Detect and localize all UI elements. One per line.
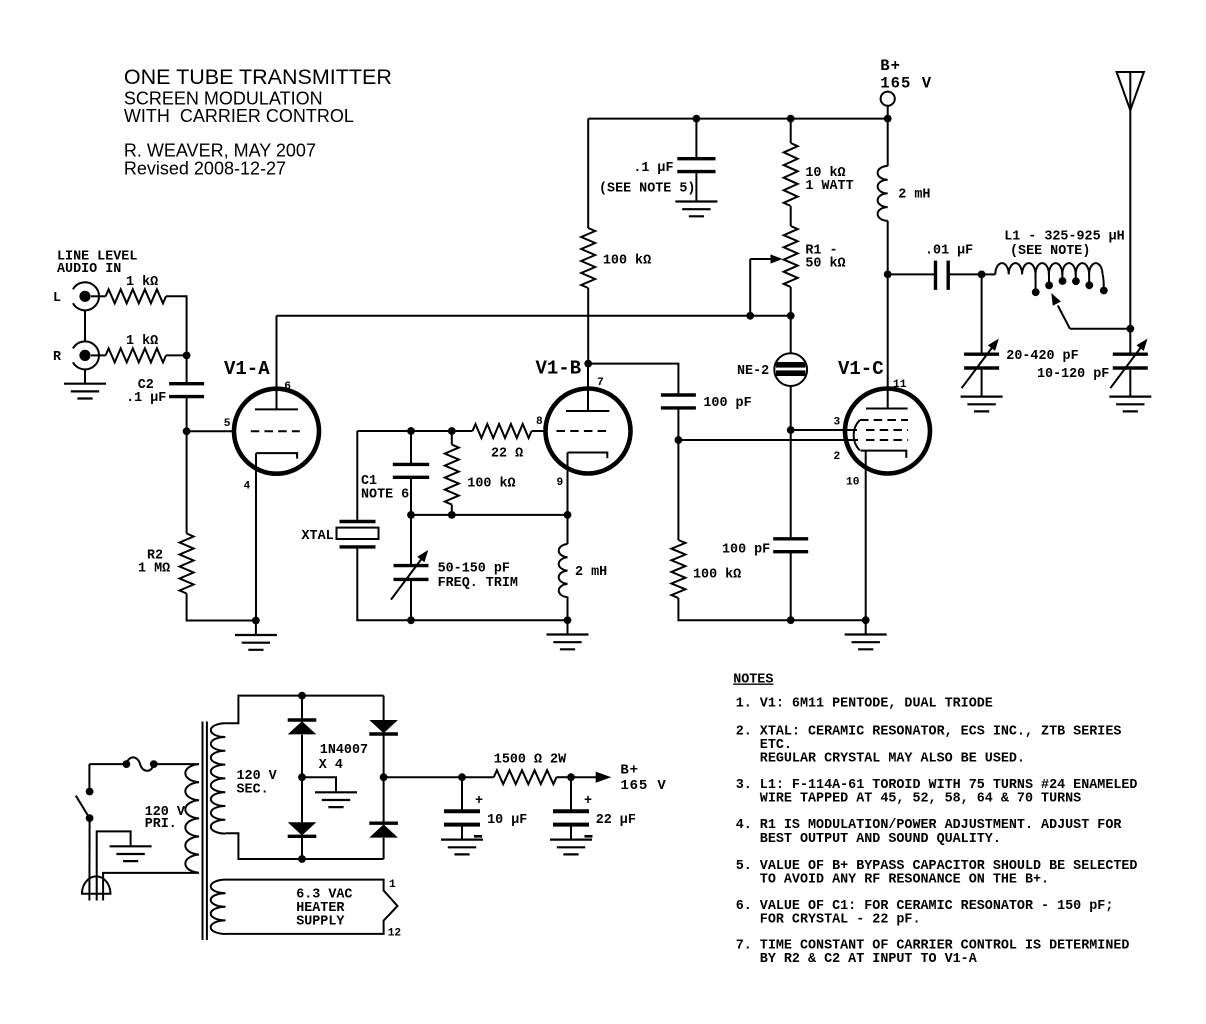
wire tap selector to antenna line <box>1070 328 1130 330</box>
wire grid line to V1-C <box>678 439 858 441</box>
svg-text:NE-2: NE-2 <box>737 364 769 379</box>
capacitor .1uF B+ bypass <box>677 159 715 172</box>
junction V1-C plate node <box>884 271 892 279</box>
junction tank node <box>978 271 986 279</box>
wire jack R to ground <box>84 369 86 383</box>
wire V1-A plate lead <box>276 316 278 410</box>
svg-text:X 4: X 4 <box>319 758 343 773</box>
junction cathode rail right <box>564 511 572 519</box>
wire osc bottom rail <box>411 619 568 621</box>
wire switch to plug <box>88 818 90 900</box>
capacitor C2 .1uF <box>169 384 204 397</box>
svg-text:NOTE 6: NOTE 6 <box>361 488 409 503</box>
svg-text:4: 4 <box>244 481 251 493</box>
svg-text:FREQ. TRIM: FREQ. TRIM <box>438 576 518 591</box>
svg-text:1: 1 <box>389 879 396 891</box>
capacitor 100 pF (coupling) <box>661 395 696 408</box>
svg-text:2 mH: 2 mH <box>898 188 930 203</box>
wire B+ terminal lead <box>887 106 889 119</box>
svg-text:L: L <box>53 291 61 306</box>
svg-text:SEC.: SEC. <box>237 783 269 798</box>
pentode V1-C envelope <box>845 389 930 474</box>
wire V1-A plate to R1 bottom rail <box>277 315 791 317</box>
wire rail to cathode ground <box>791 619 866 621</box>
switch lever <box>76 796 90 818</box>
svg-text:1 kΩ: 1 kΩ <box>126 334 158 349</box>
wire V1-C plate lead <box>887 274 889 408</box>
heater supply box <box>226 880 398 934</box>
resistor R2 1 MOhm <box>180 534 194 594</box>
junction screen cap rail <box>787 616 795 624</box>
svg-text:AUDIO IN: AUDIO IN <box>57 262 121 277</box>
junction 100k top <box>448 427 456 435</box>
svg-text:B+: B+ <box>880 57 901 75</box>
wire V1-B plate lead <box>587 364 589 411</box>
wire jack R to R1b <box>91 354 106 356</box>
svg-text:BY R2 & C2 AT INPUT TO V1-A: BY R2 & C2 AT INPUT TO V1-A <box>736 952 978 967</box>
wire xtal column bottom <box>357 547 411 620</box>
wire tank node to L1 <box>982 273 996 275</box>
transformer secondary winding <box>211 723 226 833</box>
wire secondary top lead <box>225 696 383 724</box>
wire B+ down to choke <box>887 119 889 166</box>
svg-text:1 MΩ: 1 MΩ <box>138 562 170 577</box>
wire R1a to node <box>166 296 187 355</box>
minus 10uF <box>474 835 482 838</box>
capacitor C1 <box>393 464 429 477</box>
fuse <box>126 757 153 770</box>
svg-text:12: 12 <box>388 928 402 940</box>
junction V1-A cathode rail <box>252 617 260 625</box>
V1-B grid (dashed) <box>557 430 610 432</box>
ground (22uF) <box>550 840 592 855</box>
resistor 100 kOhm (V1-C grid) <box>671 540 685 598</box>
B+ output arrow <box>571 776 596 778</box>
svg-text:100 pF: 100 pF <box>703 396 751 411</box>
svg-text:1 WATT: 1 WATT <box>805 179 853 194</box>
switch contact bottom <box>86 814 94 822</box>
wire plate node to .01uF <box>888 273 936 275</box>
AC plug <box>81 876 112 893</box>
resistor 1 kOhm (R input) <box>106 348 166 362</box>
variable capacitor 50-150 pF FREQ TRIM <box>394 566 429 580</box>
junction bridge left mid <box>298 773 306 781</box>
wire V1-B grid rail <box>532 430 546 432</box>
R1 wiper arrow <box>750 258 772 260</box>
wire 100k to V1-B plate node <box>587 288 589 364</box>
wire stem to ground V1-C <box>865 620 867 634</box>
svg-text:WITH CARRIER CONTROL: WITH CARRIER CONTROL <box>124 106 354 126</box>
bridge ground lead <box>302 777 336 792</box>
junction bridge bottom <box>298 855 306 863</box>
svg-text:SUPPLY: SUPPLY <box>296 915 345 930</box>
svg-text:R: R <box>53 350 62 365</box>
wire C2 to grid node <box>186 397 188 432</box>
wire node to C2 <box>186 355 188 383</box>
svg-text:2 mH: 2 mH <box>575 565 607 580</box>
V1-A grid (dashed) <box>251 430 300 432</box>
svg-text:TO AVOID ANY RF RESONANCE ON T: TO AVOID ANY RF RESONANCE ON THE B+. <box>736 872 1049 887</box>
wire D2 to bottom <box>301 837 303 859</box>
fuse terminal left <box>123 760 131 768</box>
svg-text:V1-B: V1-B <box>536 358 582 380</box>
svg-text:1. V1: 6M11 PENTODE, DUAL TRIO: 1. V1: 6M11 PENTODE, DUAL TRIODE <box>736 696 993 711</box>
ground (V1-C cathode) <box>845 635 887 650</box>
svg-text:50-150 pF: 50-150 pF <box>438 562 510 577</box>
junction bridge right mid <box>380 773 388 781</box>
variable capacitor 10-120 pF <box>1113 354 1148 368</box>
triode V1-A envelope <box>234 389 319 474</box>
inductor 2 mH (cathode) <box>559 544 568 597</box>
svg-text:.1 µF: .1 µF <box>633 161 673 176</box>
wire R1 bottom to NE-2 <box>790 287 792 353</box>
svg-text:22 Ω: 22 Ω <box>491 446 523 461</box>
wire switch feed <box>88 764 90 791</box>
wire choke to plate node <box>887 221 889 275</box>
svg-text:100 kΩ: 100 kΩ <box>603 254 651 269</box>
L1 tap 64T <box>1075 273 1077 279</box>
wire tank node down to 20-420pF <box>981 274 983 354</box>
svg-text:.1 µF: .1 µF <box>126 391 166 406</box>
ground (10uF) <box>441 840 483 855</box>
capacitor .01 uF coupling <box>936 261 949 290</box>
wire V1-B cathode lead <box>567 453 569 515</box>
resistor 1500 Ohm 2W <box>494 770 557 784</box>
junction B+ feed <box>884 115 892 123</box>
wire C1 lead <box>410 431 412 464</box>
svg-text:20-420 pF: 20-420 pF <box>1006 349 1078 364</box>
svg-text:2: 2 <box>834 451 841 463</box>
V1-C plate <box>866 408 908 410</box>
wire antenna lead <box>1129 72 1131 354</box>
svg-text:XTAL: XTAL <box>302 529 334 544</box>
wire grid rail left <box>357 430 472 432</box>
junction V1-A grid node <box>183 427 191 435</box>
junction .1uF bypass <box>693 115 701 123</box>
junction input mix node <box>183 352 191 360</box>
resistor 22 Ohm <box>473 424 532 438</box>
wire DC rail <box>384 776 462 778</box>
wire wiper down <box>749 259 751 316</box>
wire grid node down to R2 <box>186 431 188 533</box>
svg-text:50 kΩ: 50 kΩ <box>805 257 845 272</box>
ground (10-120 pF) <box>1109 397 1151 412</box>
svg-text:10 µF: 10 µF <box>487 813 527 828</box>
wire to 10k <box>790 119 792 143</box>
wire D1 to mid <box>301 735 303 778</box>
wire cathode rail <box>411 514 568 516</box>
neon lamp NE-2 <box>774 353 807 386</box>
switch contact top <box>86 788 94 796</box>
svg-text:B+: B+ <box>620 763 639 779</box>
junction bridge top <box>298 692 306 700</box>
wire 10-120pF to ground <box>1129 368 1131 397</box>
wire jack L-R link <box>84 310 86 341</box>
jack L <box>73 282 99 310</box>
wire 100k to cathode rail <box>451 505 453 515</box>
wire 100pF to rail <box>790 552 792 621</box>
wire fuse to primary <box>154 763 199 765</box>
ground (audio jacks) <box>64 384 106 399</box>
svg-text:WIRE TAPPED AT 45, 52, 58, 64: WIRE TAPPED AT 45, 52, 58, 64 & 70 TURNS <box>736 791 1082 806</box>
transformer core <box>203 722 207 941</box>
wire bridge left top <box>301 696 303 720</box>
wire 22uF lead <box>570 777 572 811</box>
wire stem to ground V1-A <box>255 621 257 636</box>
L1 tap 52T <box>1048 273 1050 284</box>
svg-text:2. XTAL: CERAMIC RESONATOR, EC: 2. XTAL: CERAMIC RESONATOR, ECS INC., ZT… <box>736 725 1122 740</box>
wire bridge right top <box>383 696 385 720</box>
L1 tap 58T <box>1061 273 1063 279</box>
transformer heater winding <box>211 880 226 934</box>
svg-text:(SEE NOTE): (SEE NOTE) <box>1010 244 1090 259</box>
svg-text:.01 µF: .01 µF <box>925 243 973 258</box>
wire NE-2 to 100pF <box>790 386 792 539</box>
wire bypass to ground <box>695 172 697 202</box>
wire V1-A cathode lead <box>255 453 257 620</box>
svg-text:11: 11 <box>893 379 907 391</box>
junction wiper-carrier line <box>746 312 754 320</box>
wire mid to D4 <box>383 777 385 823</box>
B+ terminal <box>881 92 895 106</box>
wire rail down to 100k <box>587 119 589 228</box>
V1-C beam plate arc <box>854 420 860 450</box>
ground (V1-A cathode) <box>235 635 277 650</box>
junction V1-B plate <box>584 360 592 368</box>
svg-text:100 kΩ: 100 kΩ <box>693 568 741 583</box>
diode D2 1N4007 <box>288 822 317 835</box>
resistor 100 kOhm (V1-B plate load) <box>581 228 595 288</box>
wire freq trim to rail <box>410 579 412 620</box>
diode D1 1N4007 <box>288 721 317 734</box>
junction bottom rail left <box>407 616 415 624</box>
wire rail to 1500 <box>462 776 494 778</box>
junction antenna feed <box>1126 325 1134 333</box>
wire grid leak to rail <box>678 598 790 620</box>
wire secondary bottom lead <box>225 833 383 859</box>
crystal XTAL <box>340 522 376 547</box>
capacitor 10 uF electrolytic <box>444 811 480 824</box>
L1 end lead <box>1103 274 1104 288</box>
ground (mains) <box>110 846 152 861</box>
svg-text:6: 6 <box>284 381 291 393</box>
wire 22uF to ground <box>570 825 572 840</box>
ground (20-420 pF) <box>961 397 1003 412</box>
wire screen line to V1-C <box>791 429 857 431</box>
resistor 10 kOhm 1W <box>784 143 798 206</box>
wire .01uF to tank <box>948 273 981 275</box>
junction 22uF <box>567 773 575 781</box>
V1-B plate <box>566 410 609 412</box>
wire plate node to coupling cap <box>588 364 678 395</box>
wire mid to D2 <box>301 777 303 822</box>
wire freq trim column <box>410 515 412 566</box>
tap selector arrow <box>1058 306 1070 329</box>
junction osc ground <box>564 616 572 624</box>
wire 1500 to 22uF <box>557 776 572 778</box>
svg-text:V1-A: V1-A <box>224 358 270 380</box>
inductor 2 mH (plate choke) <box>878 166 888 221</box>
svg-text:+: + <box>475 794 483 809</box>
wire 2mH cathode choke top <box>567 515 569 544</box>
junction cathode rail mid <box>448 511 456 519</box>
resistor 1 kOhm (L input) <box>106 289 166 303</box>
wire stem to ground osc <box>567 620 569 634</box>
wire R2 to bottom rail <box>187 594 256 621</box>
variable capacitor 20-420 pF <box>964 354 999 368</box>
svg-text:10-120 pF: 10-120 pF <box>1037 367 1109 382</box>
svg-text:1 kΩ: 1 kΩ <box>126 275 158 290</box>
junction R1 bottom <box>787 312 795 320</box>
svg-text:ONE TUBE TRANSMITTER: ONE TUBE TRANSMITTER <box>124 65 392 89</box>
svg-text:5: 5 <box>224 418 231 430</box>
plug ground lead <box>97 831 131 900</box>
svg-text:(SEE NOTE 5): (SEE NOTE 5) <box>599 182 695 197</box>
svg-text:165 V: 165 V <box>880 75 932 93</box>
wire D4 to bottom <box>383 838 385 859</box>
ground (oscillator) <box>547 635 589 650</box>
junction C1 top <box>407 427 415 435</box>
svg-text:+: + <box>584 794 592 809</box>
transformer primary winding <box>185 764 199 873</box>
junction screen grid <box>787 426 795 434</box>
capacitor 22 uF electrolytic <box>553 811 589 824</box>
svg-text:100 kΩ: 100 kΩ <box>467 477 515 492</box>
svg-text:BEST OUTPUT AND SOUND QUALITY.: BEST OUTPUT AND SOUND QUALITY. <box>736 832 1001 847</box>
svg-text:NOTES: NOTES <box>733 673 773 688</box>
svg-text:7: 7 <box>597 377 604 389</box>
V1-C grid rows (dashed) <box>860 419 908 421</box>
wire jack L to R1a <box>91 295 106 297</box>
svg-text:3: 3 <box>834 417 841 429</box>
triode V1-B envelope <box>546 389 631 474</box>
V1-C cathode <box>861 451 907 458</box>
wire primary bottom lead <box>103 873 199 901</box>
svg-text:4. R1 IS MODULATION/POWER ADJU: 4. R1 IS MODULATION/POWER ADJUSTMENT. AD… <box>736 818 1123 833</box>
svg-text:8: 8 <box>536 416 543 428</box>
svg-text:165 V: 165 V <box>620 778 666 794</box>
wire grid node down to 100k <box>677 440 679 540</box>
antenna <box>1117 72 1144 110</box>
junction 10k top <box>787 115 795 123</box>
minus 22uF <box>585 835 593 838</box>
svg-text:9: 9 <box>557 477 564 489</box>
svg-text:PRI.: PRI. <box>145 817 177 832</box>
jack R <box>73 341 99 369</box>
svg-text:1N4007: 1N4007 <box>320 743 368 758</box>
wire V1-A grid lead <box>187 430 235 432</box>
L1 tap 70T <box>1088 273 1090 283</box>
ground (B+ bypass) <box>675 202 717 217</box>
svg-text:FOR CRYSTAL - 22 pF.: FOR CRYSTAL - 22 pF. <box>736 912 921 927</box>
ground (bridge center tap) <box>315 792 357 807</box>
junction cathode rail left <box>407 511 415 519</box>
svg-text:V1-C: V1-C <box>838 358 884 380</box>
wire choke to rail <box>567 597 569 621</box>
V1-B cathode <box>568 453 608 459</box>
svg-text:100 pF: 100 pF <box>722 543 770 558</box>
wire 10uF lead <box>461 777 463 811</box>
wire D3 to mid <box>383 735 385 778</box>
wire coupling cap to grid node <box>677 408 679 440</box>
V1-A plate <box>255 408 298 410</box>
svg-text:L1 - 325-925 µH: L1 - 325-925 µH <box>1004 230 1125 245</box>
fuse terminal right <box>150 760 158 768</box>
potentiometer R1 50 kOhm <box>784 226 798 287</box>
wire C1 to cathode rail <box>410 477 412 515</box>
wire 10uF to ground <box>461 825 463 840</box>
V1-A cathode <box>256 453 297 459</box>
diode D3 1N4007 <box>369 720 398 733</box>
svg-text:Revised 2008-12-27: Revised 2008-12-27 <box>124 159 286 179</box>
junction 10uF <box>458 773 466 781</box>
wire 10k to R1 <box>790 206 792 226</box>
wire mains top <box>89 763 126 765</box>
inductor L1 winding <box>995 263 1102 274</box>
junction V1-C cathode rail <box>862 616 870 624</box>
wire V1-C cathode lead <box>865 451 867 621</box>
wire 20-420pF to ground <box>981 368 983 397</box>
wire xtal column top <box>356 431 358 522</box>
svg-text:REGULAR CRYSTAL MAY ALSO BE US: REGULAR CRYSTAL MAY ALSO BE USED. <box>736 752 1025 767</box>
svg-text:22 µF: 22 µF <box>596 813 636 828</box>
wire bypass cap lead <box>695 119 697 159</box>
resistor 100 kOhm (V1-B grid) <box>445 445 459 505</box>
capacitor 100 pF (screen) <box>773 539 808 552</box>
wire 100k cathode lead <box>451 431 453 445</box>
diode D4 1N4007 <box>369 824 398 837</box>
wire R1b to node <box>166 354 187 356</box>
L1 tap 45T <box>1035 273 1037 290</box>
svg-text:R. WEAVER, MAY 2007: R. WEAVER, MAY 2007 <box>124 141 316 161</box>
svg-text:1500 Ω 2W: 1500 Ω 2W <box>494 752 567 767</box>
svg-text:10: 10 <box>846 477 860 489</box>
wire top B+ rail <box>588 118 888 120</box>
junction V1-C grid node <box>675 436 683 444</box>
